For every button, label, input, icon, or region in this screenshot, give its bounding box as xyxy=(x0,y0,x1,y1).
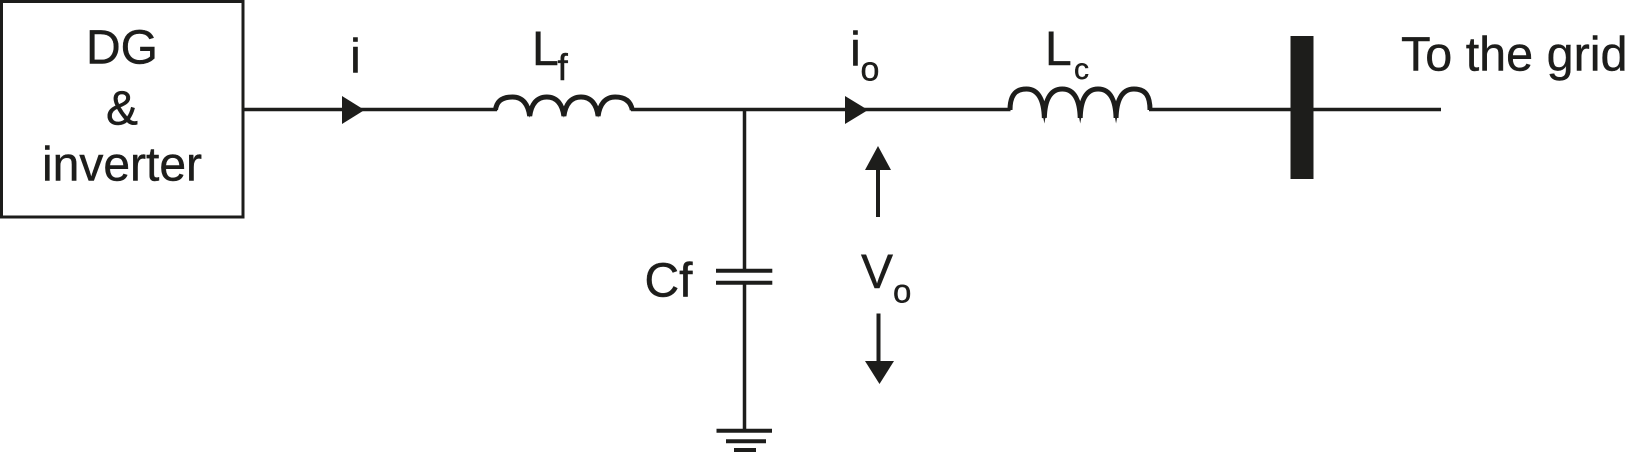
svg-text:i: i xyxy=(850,24,861,77)
svg-text:L: L xyxy=(532,23,559,76)
label io xyxy=(850,24,879,89)
svg-text:o: o xyxy=(861,51,880,89)
inductor Lc cusp needles xyxy=(1041,106,1047,124)
wire from inverter to Lf xyxy=(243,108,497,112)
label Lf xyxy=(532,23,569,88)
capacitor Cf xyxy=(716,271,772,283)
label Lc xyxy=(1045,23,1089,86)
Vo down arrow xyxy=(865,314,894,385)
inductor Lf xyxy=(496,97,633,116)
grid bus bar xyxy=(1291,36,1314,179)
svg-text:c: c xyxy=(1074,53,1089,86)
svg-text:&: & xyxy=(106,83,138,136)
svg-text:i: i xyxy=(350,31,361,84)
current arrow i xyxy=(342,96,365,124)
wire from Cf to ground xyxy=(743,283,747,430)
svg-text:DG: DG xyxy=(86,22,158,75)
svg-text:To the grid: To the grid xyxy=(1401,28,1627,82)
DG & inverter block xyxy=(2,2,244,218)
node junction wire down to Cf xyxy=(743,110,747,270)
svg-text:Cf: Cf xyxy=(645,255,694,308)
wire from Lc to bus xyxy=(1149,108,1291,112)
ground xyxy=(717,431,773,451)
Vo up arrow xyxy=(865,146,891,217)
svg-text:o: o xyxy=(893,273,911,310)
wire from bus to grid xyxy=(1314,108,1442,112)
inductor Lc xyxy=(1010,89,1150,118)
svg-text:inverter: inverter xyxy=(42,139,202,192)
svg-text:V: V xyxy=(861,246,893,299)
wire from Lf through node to Lc xyxy=(631,108,1011,112)
current arrow io xyxy=(845,96,868,124)
svg-text:L: L xyxy=(1045,23,1072,76)
svg-text:f: f xyxy=(558,47,569,88)
inductor Lf cusp needles xyxy=(527,107,533,118)
label Vo xyxy=(861,246,911,310)
